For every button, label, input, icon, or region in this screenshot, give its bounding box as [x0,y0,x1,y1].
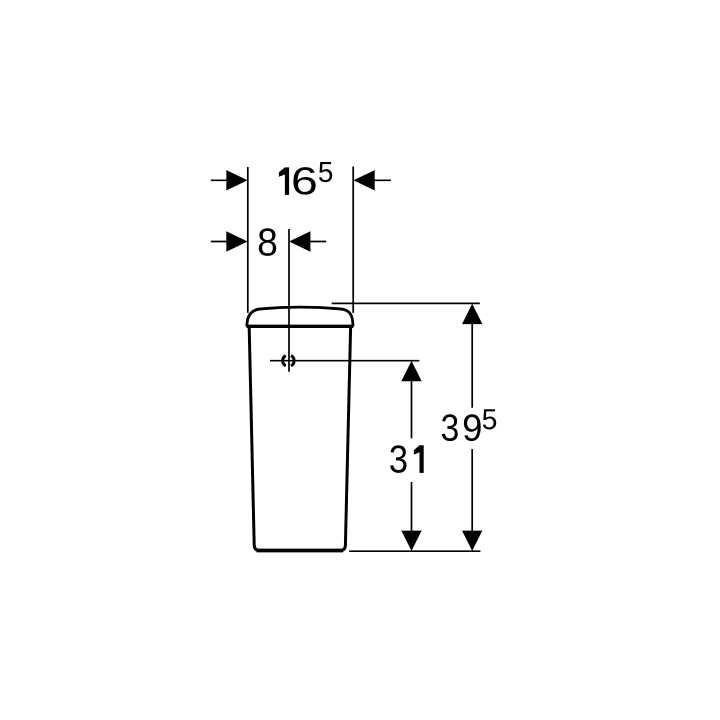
dimension 39.5 line upper segment [471,324,473,408]
dimension label 16 superscript 5 [319,162,332,182]
dimension label 31: digit 1 [414,445,424,473]
cistern body [249,328,350,551]
hole centerline [270,360,419,362]
dimension label 39: digit 3 [442,414,458,441]
dimension 31 line upper segment [411,381,413,439]
dimension label 39: digit 9 [464,414,481,441]
dimension 16.5 right arrow [353,170,374,190]
dimension label 16: digit 6 [293,167,315,195]
lid bottom edge [247,325,354,328]
dimension 8 right leader [310,241,326,243]
left extension line [247,167,249,313]
dimension 39.5 top arrow [462,304,482,324]
dimension label 31: digit 3 [390,445,406,473]
dimension label 39 superscript 5 [483,409,496,429]
dimension 8 left arrow [226,231,247,251]
cistern lid [247,307,353,326]
top reference line [332,302,480,304]
hole circle [283,356,294,366]
hole extension line [288,229,290,372]
right extension line [352,167,354,313]
dimension 39.5 line lower segment [471,449,473,531]
dimension label 16: digit 1 [279,167,289,195]
dimension 16.5 left leader [211,179,227,181]
dimension 8 right arrow [289,231,310,251]
dimension 31 top arrow [401,361,421,381]
dimension 31 line lower segment [411,482,413,531]
bottom reference line [349,550,480,552]
dimension 16.5 right leader [374,179,390,181]
dimension 39.5 bottom arrow [462,531,482,551]
dimension 8 left leader [211,241,227,243]
dimension 31 bottom arrow [401,531,421,551]
dimension 16.5 left arrow [226,170,247,190]
cistern bottom edge [257,549,344,553]
dimension label 8 [259,228,276,256]
